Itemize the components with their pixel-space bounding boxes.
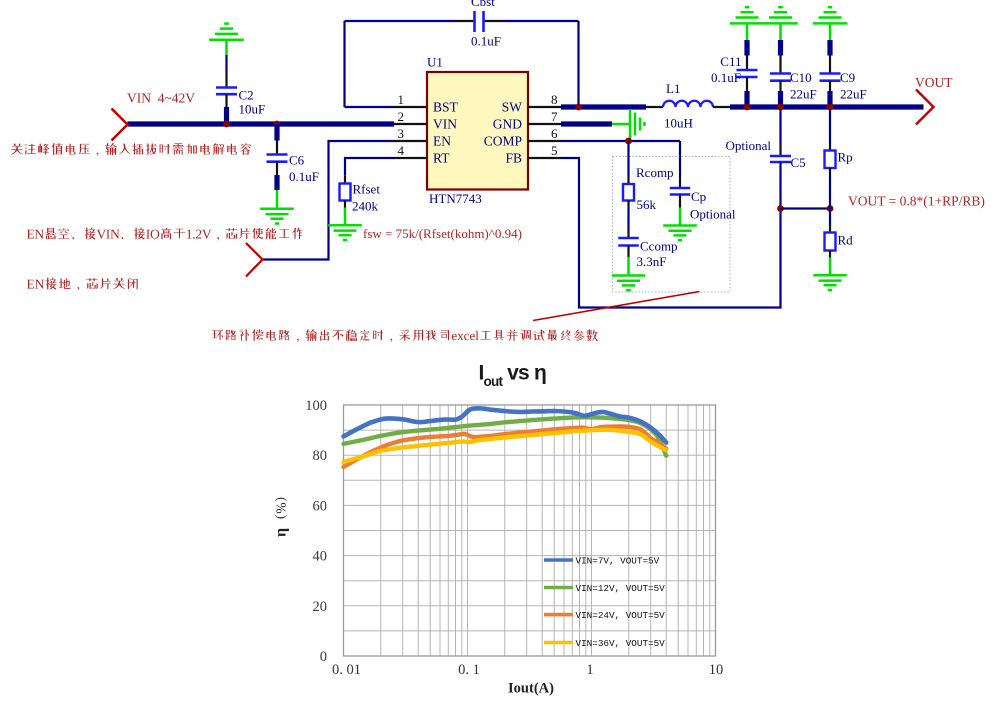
- ground GND-C2 (flipped, above C2): [209, 24, 244, 56]
- svg-text:Rcomp: Rcomp: [636, 165, 674, 180]
- svg-text:20: 20: [313, 599, 328, 615]
- ground GND-Rfset: [328, 225, 362, 240]
- wire FB net (down and around): [561, 158, 781, 308]
- wire SW to L1 lead: [646, 106, 663, 108]
- svg-text:C6: C6: [289, 153, 305, 168]
- node VOUT junction C11: [744, 104, 751, 111]
- svg-text:10: 10: [709, 662, 724, 678]
- chart y-axis tick labels: [305, 398, 327, 665]
- resistor Rp: [825, 109, 853, 209]
- wire annotation leader line: [533, 292, 700, 321]
- svg-text:C10: C10: [790, 70, 812, 85]
- label annotation: EN enable note: [27, 228, 303, 241]
- wire GND pin stub (thick): [561, 121, 612, 126]
- svg-text:VIN=24V, VOUT=5V: VIN=24V, VOUT=5V: [576, 610, 666, 621]
- svg-text:Optional: Optional: [726, 138, 772, 153]
- capacitor Ccomp 3.3nF: [618, 229, 677, 276]
- wire VIN rail (thick): [128, 121, 395, 126]
- ground GND-C10 (flipped): [763, 7, 798, 40]
- svg-text:40: 40: [313, 549, 328, 565]
- svg-text:GND: GND: [493, 117, 522, 132]
- pin 2 VIN: [394, 109, 457, 132]
- svg-text:0. 1: 0. 1: [458, 662, 480, 678]
- svg-text:10uF: 10uF: [239, 102, 266, 117]
- capacitor C5 Optional: [726, 109, 806, 209]
- svg-text:VOUT = 0.8*(1+RP/RB): VOUT = 0.8*(1+RP/RB): [848, 194, 985, 209]
- node VOUT junction C9: [827, 104, 834, 111]
- ground GND-Cp: [663, 226, 697, 241]
- resistor Rfset 240k: [340, 176, 381, 226]
- svg-text:8: 8: [551, 92, 558, 107]
- wire L1 to VOUT rail lead: [713, 106, 730, 108]
- node VIN junction at C2: [223, 121, 230, 128]
- chart y-axis title eta (%): [275, 498, 289, 537]
- ground GND-pin7 (rotated right): [612, 109, 645, 139]
- svg-text:7: 7: [551, 109, 558, 124]
- node COMP junction: [625, 138, 632, 145]
- wire BST loop to Cbst: [345, 21, 579, 107]
- pin 1 BST: [394, 92, 459, 115]
- chart curve VIN=12V green: [344, 417, 667, 455]
- wire divider node: [781, 207, 831, 209]
- svg-text:EN: EN: [433, 134, 451, 149]
- box compensation dashed outline: [613, 157, 731, 293]
- svg-text:6: 6: [551, 126, 558, 141]
- svg-text:60: 60: [313, 498, 328, 514]
- port VIN input chevron: [112, 109, 128, 141]
- pin 7 GND: [493, 109, 561, 132]
- svg-text:VIN=12V, VOUT=5V: VIN=12V, VOUT=5V: [576, 583, 666, 594]
- svg-text:VIN: VIN: [433, 117, 457, 132]
- capacitor C6 0.1uF: [267, 124, 319, 209]
- op-amp U1 HTN7743 chip body: [427, 72, 528, 190]
- chart curve VIN=7V blue: [344, 408, 667, 442]
- svg-text:0.1uF: 0.1uF: [711, 70, 741, 85]
- svg-text:Cbst: Cbst: [471, 0, 495, 9]
- svg-text:1: 1: [586, 662, 593, 678]
- wire EN net with chevron: [263, 141, 394, 260]
- svg-text:3: 3: [398, 126, 405, 141]
- capacitor C10 22uF: [770, 40, 817, 107]
- label annotation: input capacitor note: [11, 143, 251, 156]
- svg-text:FB: FB: [505, 151, 522, 166]
- svg-text:1: 1: [398, 92, 405, 107]
- inductor L1 10uH: [663, 101, 713, 107]
- svg-text:22uF: 22uF: [840, 87, 867, 102]
- svg-text:2: 2: [398, 109, 405, 124]
- ground GND-C11 (flipped): [730, 7, 764, 40]
- ground GND-C9 (flipped): [813, 7, 847, 40]
- svg-text:VOUT: VOUT: [915, 75, 953, 90]
- label annotation: loop compensation note: [212, 329, 598, 342]
- ground GND-Rd: [813, 275, 847, 290]
- node SW junction: [575, 104, 582, 111]
- svg-text:5: 5: [551, 143, 558, 158]
- svg-text:C2: C2: [239, 88, 254, 103]
- capacitor Cp Optional: [670, 141, 736, 226]
- chart curve VIN=36V yellow: [344, 430, 667, 462]
- chart curve VIN=24V orange: [344, 426, 667, 467]
- svg-text:L1: L1: [666, 81, 680, 96]
- svg-text:COMP: COMP: [484, 134, 522, 149]
- svg-text:VIN 4~42V: VIN 4~42V: [127, 91, 195, 106]
- svg-text:Cp: Cp: [691, 189, 706, 204]
- capacitor C2 10uF: [216, 55, 265, 124]
- svg-text:SW: SW: [502, 100, 523, 115]
- svg-text:U1: U1: [427, 55, 443, 70]
- port VOUT chevron: [916, 90, 934, 125]
- svg-text:Optional: Optional: [690, 207, 736, 222]
- svg-text:3.3nF: 3.3nF: [637, 254, 667, 269]
- chart x-axis tick labels: [332, 662, 723, 678]
- svg-text:VIN=7V, VOUT=5V: VIN=7V, VOUT=5V: [576, 556, 660, 567]
- svg-text:100: 100: [305, 398, 327, 414]
- svg-text:10uH: 10uH: [664, 116, 693, 131]
- wire COMP net: [561, 140, 680, 142]
- pin 5 FB: [505, 143, 561, 166]
- svg-text:0: 0: [320, 649, 327, 665]
- svg-text:0. 01: 0. 01: [332, 662, 361, 678]
- svg-text:22uF: 22uF: [790, 87, 817, 102]
- svg-text:56k: 56k: [637, 197, 657, 212]
- resistor Rcomp 56k: [623, 141, 674, 229]
- chart gridlines: [344, 405, 716, 656]
- ground GND-C6: [260, 209, 294, 224]
- label annotation: EN shutdown note: [27, 278, 138, 291]
- svg-text:HTN7743: HTN7743: [429, 191, 482, 206]
- port EN chevron: [246, 243, 263, 277]
- svg-text:Rfset: Rfset: [353, 182, 381, 197]
- node VOUT junction C10: [777, 104, 784, 111]
- svg-text:VIN=36V, VOUT=5V: VIN=36V, VOUT=5V: [576, 638, 666, 649]
- svg-text:80: 80: [313, 448, 328, 464]
- svg-text:C9: C9: [840, 70, 855, 85]
- capacitor Cbst 0.1uF: [455, 0, 501, 49]
- svg-text:0.1uF: 0.1uF: [289, 169, 319, 184]
- svg-text:BST: BST: [433, 100, 459, 115]
- svg-text:C11: C11: [720, 54, 741, 69]
- wire VOUT rail (thick): [730, 104, 924, 109]
- pin 8 SW: [502, 92, 561, 115]
- node FB divider junction right: [827, 205, 834, 212]
- svg-text:4: 4: [398, 143, 405, 158]
- pin 3 EN: [394, 126, 451, 149]
- wire SW node (thick): [561, 104, 646, 109]
- capacitor C11 0.1uF: [711, 40, 757, 107]
- chart legend: [544, 556, 665, 650]
- svg-text:240k: 240k: [352, 199, 379, 214]
- svg-text:Rp: Rp: [838, 150, 853, 165]
- svg-text:fsw = 75k/(Rfset(kohm)^0.94): fsw = 75k/(Rfset(kohm)^0.94): [363, 226, 522, 241]
- capacitor C9 22uF: [820, 40, 867, 107]
- pin 6 COMP: [484, 126, 561, 149]
- svg-text:0.1uF: 0.1uF: [471, 34, 501, 49]
- svg-text:Iout(A): Iout(A): [508, 681, 554, 697]
- svg-text:Ccomp: Ccomp: [640, 239, 678, 254]
- ground GND-Ccomp: [612, 276, 645, 291]
- pin 4 RT: [394, 143, 450, 166]
- wire RT to Rfset: [345, 158, 394, 176]
- svg-text:Iout vs η: Iout vs η: [479, 362, 547, 390]
- chart plot frame: [344, 405, 716, 656]
- resistor Rd: [825, 209, 854, 276]
- svg-text:C5: C5: [791, 155, 806, 170]
- svg-text:RT: RT: [433, 151, 450, 166]
- svg-text:Rd: Rd: [838, 233, 854, 248]
- node FB divider junction left: [777, 205, 784, 212]
- node VIN junction at C6: [274, 121, 281, 128]
